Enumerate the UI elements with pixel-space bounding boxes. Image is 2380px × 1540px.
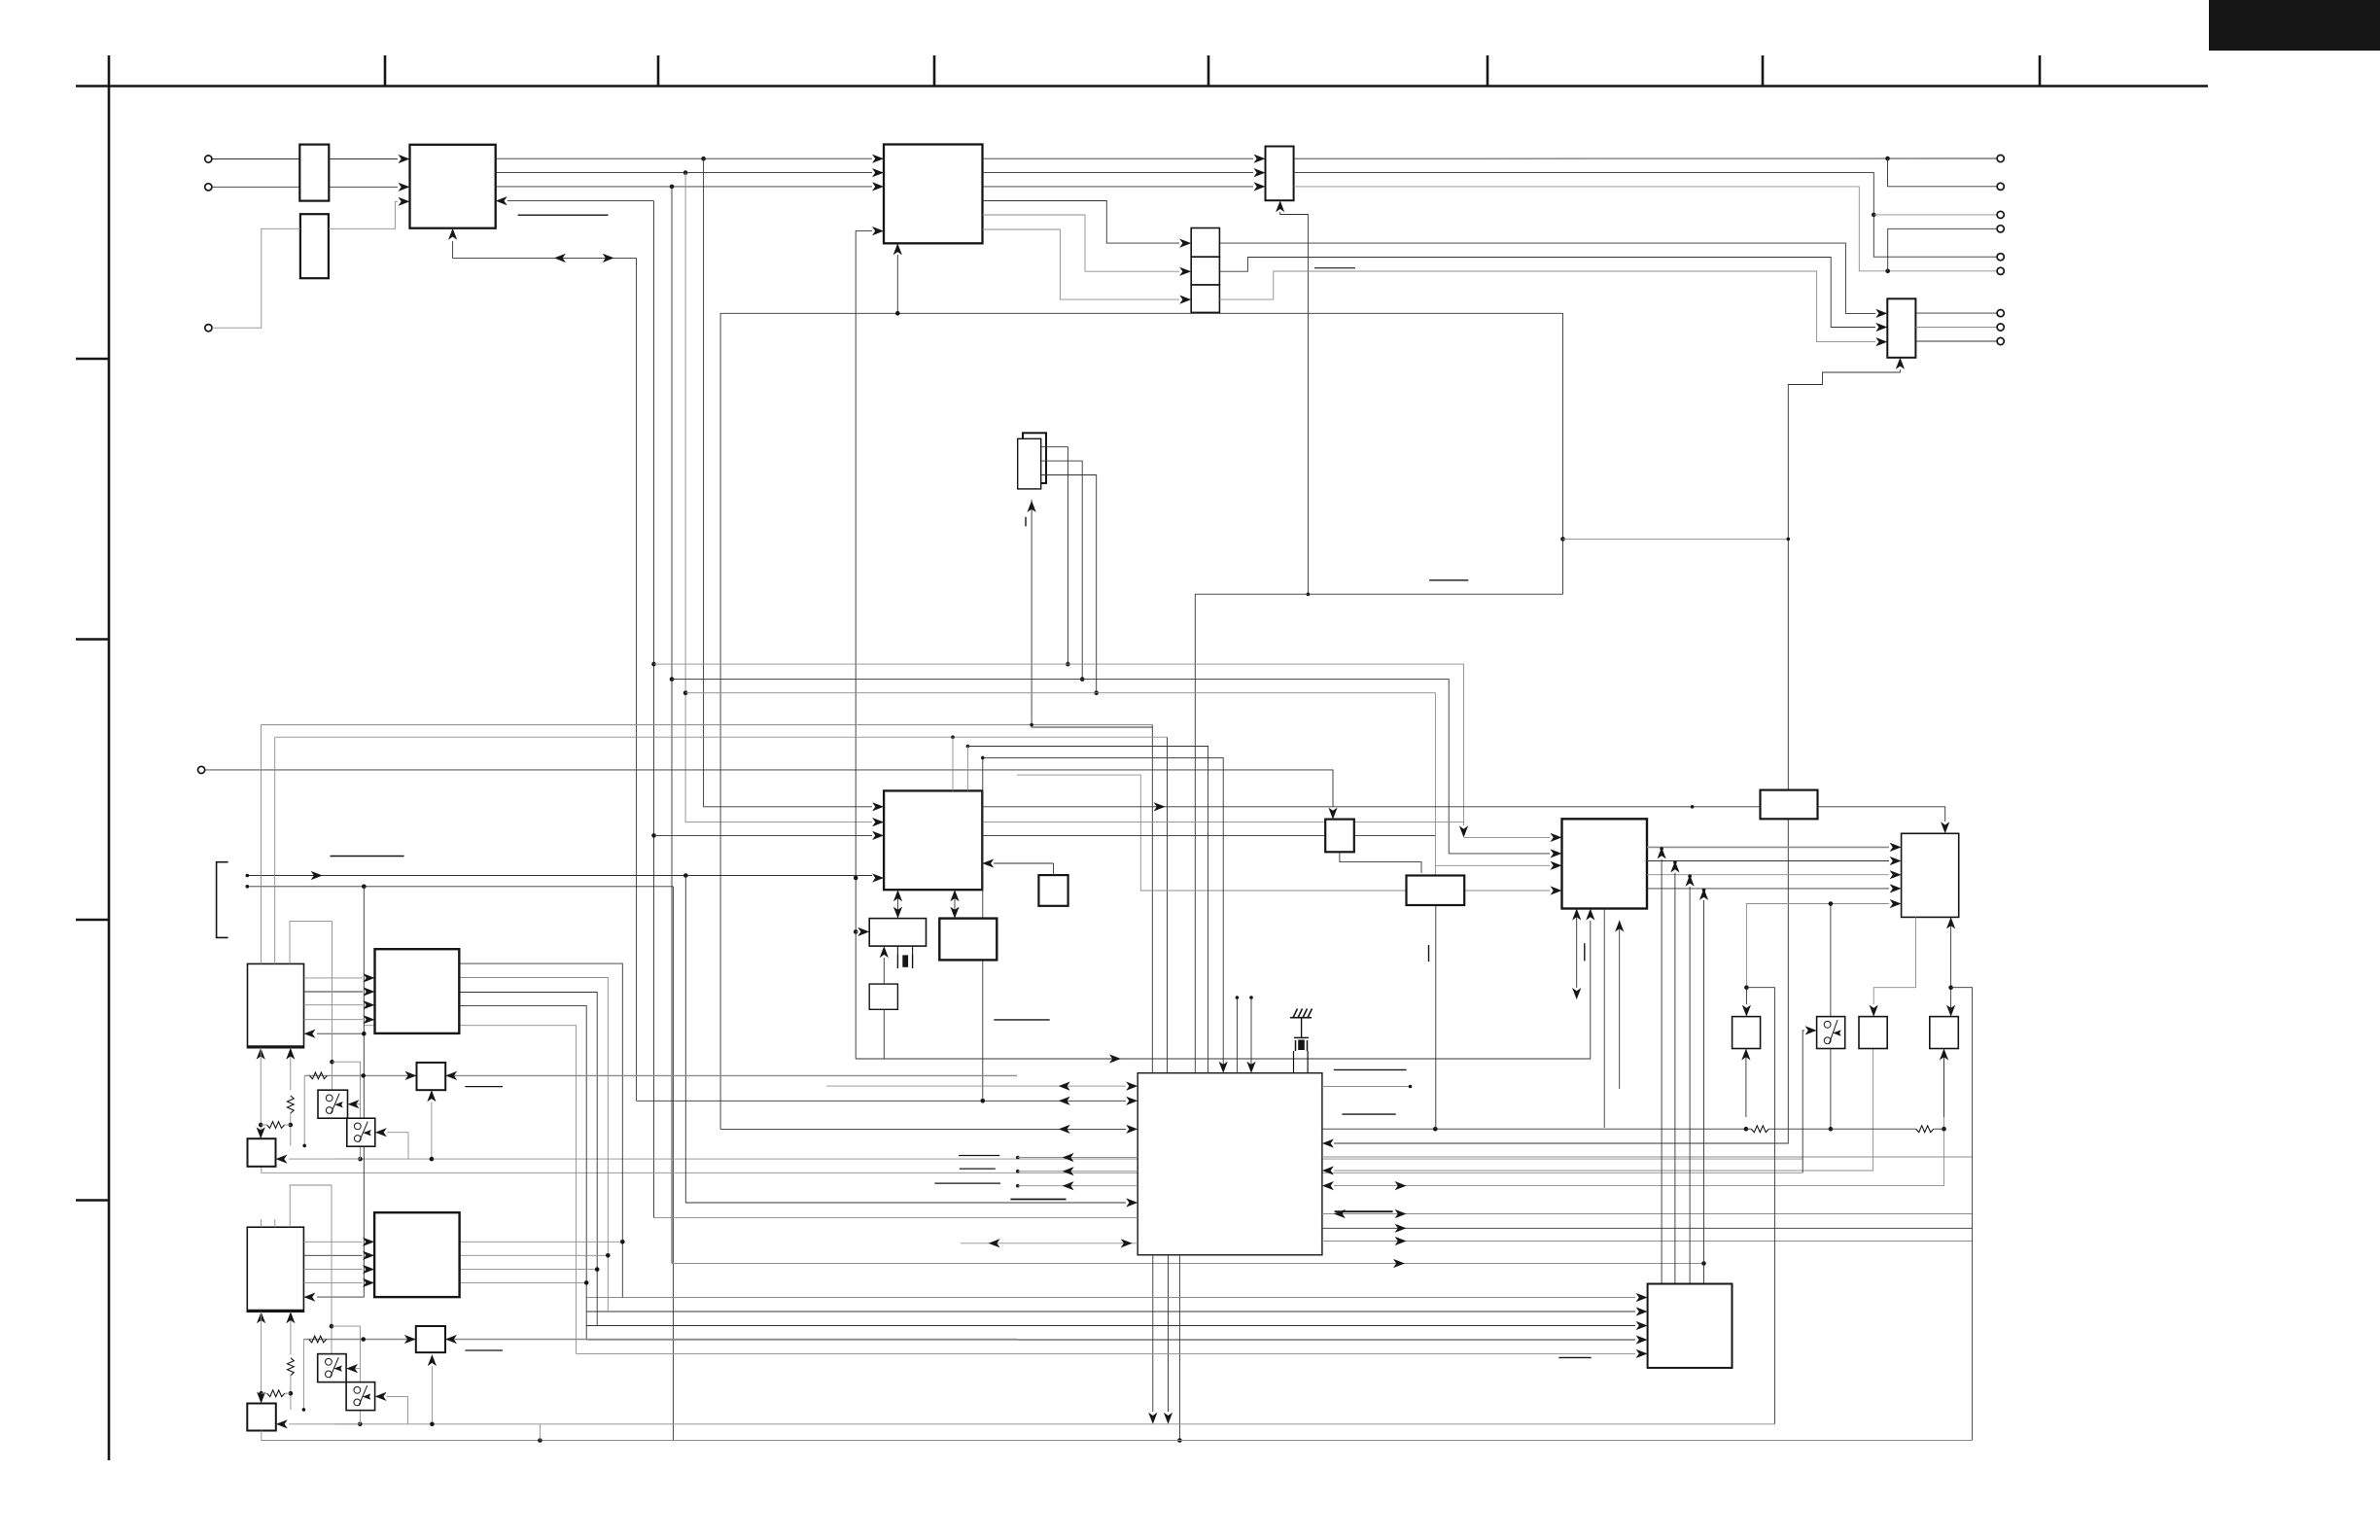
ground symbol <box>1290 1009 1312 1018</box>
MCU U10 <box>1137 1073 1322 1255</box>
mcu right in 1204 <box>1334 1049 1873 1172</box>
wire 1607 corner to v1229 <box>1195 594 1562 1072</box>
bracket <box>217 862 228 938</box>
V bottom <box>1830 1049 1832 1130</box>
E2 bottom verticals <box>261 1323 262 1403</box>
DAC F2 U25 <box>374 1212 460 1297</box>
mid line B to right cluster <box>672 680 1449 854</box>
output terminal c9 <box>1997 337 2004 344</box>
DAC W U19 <box>1648 1284 1732 1368</box>
G1 line <box>304 1074 1017 1076</box>
input terminal J3 <box>205 325 212 332</box>
mcu line 1263 <box>1322 1227 1973 1229</box>
G2 line <box>303 1339 1017 1341</box>
R out to Q top <box>1818 807 1945 822</box>
E2-F2 line1 <box>303 1241 362 1242</box>
junction U4 out2 <box>1080 677 1085 682</box>
sw1b input <box>387 1132 408 1134</box>
W vert 2 <box>1674 873 1676 1284</box>
label underline G2 <box>465 1349 503 1351</box>
junction v374/E1 <box>362 1032 367 1036</box>
line B bracket <box>247 886 673 888</box>
output terminal c3 <box>1997 211 2004 218</box>
resistor R11 <box>1916 1126 1934 1133</box>
bus2 FL3 to corner <box>1294 173 1998 258</box>
V top wire <box>1830 905 1832 1017</box>
label underline n1 <box>959 1155 999 1157</box>
ROM U7 <box>939 919 997 961</box>
ctrl line dot-start 1 <box>1016 1156 1020 1160</box>
pi shape E2 top <box>290 1185 332 1227</box>
G2 right line <box>457 1339 1017 1341</box>
branch to G2 feed <box>332 1326 360 1424</box>
U3 out1 to terminal c7 <box>1915 312 1997 314</box>
U feed net <box>1744 985 1749 990</box>
U4 out3 <box>1041 475 1097 693</box>
P in4 arrow <box>1551 886 1562 894</box>
DSP U5 <box>884 790 982 890</box>
junction DSPtop1/758 <box>951 735 955 739</box>
pin label tick <box>1025 517 1027 527</box>
bidir arrows DSP-RAM <box>897 890 899 918</box>
filter FL4 <box>1191 228 1219 258</box>
output terminal c6 <box>1997 267 2004 274</box>
P bottom pin 3 <box>1619 921 1621 1089</box>
box O U12 <box>1407 876 1465 906</box>
output driver U3 <box>1887 298 1915 358</box>
box O bottom pin <box>1435 904 1437 1129</box>
vertical v692 down <box>672 887 674 1441</box>
output terminal c1 <box>1997 155 2004 161</box>
line J4 to N <box>205 770 1333 807</box>
H2 bottom long wire <box>262 1431 1973 1441</box>
P-Q bus 3 <box>1647 874 1889 876</box>
R input junction <box>1691 805 1695 809</box>
mcu right in 1176 <box>1334 539 1788 1143</box>
E1-F1 line2 <box>304 991 364 993</box>
P bottom pin 2 <box>1603 909 1605 1129</box>
box N U11 <box>1325 820 1354 853</box>
F1 out4 step <box>459 1005 586 1340</box>
tap to terminal c3 <box>1873 214 1997 216</box>
U4 bottom feed <box>1032 500 1152 727</box>
ruler tick marks <box>384 55 387 87</box>
junction U4 out3 <box>1094 690 1099 695</box>
junction U2 bottom tee <box>895 311 900 316</box>
left border tick marks <box>76 358 109 361</box>
tap to terminal c4 <box>1888 228 1997 270</box>
U2 out5 step to FL5 <box>983 215 1180 271</box>
junction on v1607 <box>1560 537 1565 542</box>
H1 feed line right <box>361 1158 1803 1160</box>
mcu line 1277r <box>1322 1241 1973 1242</box>
filter FL3 <box>1266 147 1294 201</box>
output terminal c7 <box>1997 310 2004 317</box>
wire J3 to FL2 <box>212 228 300 328</box>
E2-F2 line3 <box>303 1269 362 1271</box>
input terminal J1 <box>205 156 212 162</box>
line under MCU 1299 <box>672 1263 1704 1265</box>
wire to RAM <box>856 930 857 932</box>
junction 1481 <box>538 1438 542 1443</box>
output terminal c5 <box>1997 254 2004 261</box>
label underline U1 <box>518 214 609 216</box>
wire into U2 in4 <box>856 231 872 1059</box>
G1 right line <box>457 1074 1017 1076</box>
mcu right out 1190 <box>1322 1156 1973 1158</box>
junction g1 vert <box>431 1102 433 1159</box>
T feed <box>1873 917 1915 1004</box>
switch box V SW5 <box>1817 1017 1845 1049</box>
E2-F2 line2 <box>303 1254 362 1256</box>
mcu right line 1117 <box>1322 1086 1411 1088</box>
vertical resistor R1 <box>287 1096 294 1113</box>
return line to MCU pin a <box>1151 725 1153 1073</box>
vertical resistor R4 <box>288 1358 295 1376</box>
resistor net line 1161 <box>1322 1128 1746 1130</box>
filter FL1 <box>299 145 329 201</box>
mcu in line 1236 <box>683 873 688 878</box>
U1 bottom control wire bidirectional <box>453 241 637 258</box>
clock box U8 <box>869 984 897 1009</box>
U4 out2 <box>1041 461 1083 679</box>
resistor line segs <box>1934 1128 1944 1130</box>
mcu line 1248 <box>1322 1213 1973 1215</box>
return line to MCU pin b <box>1167 737 1169 1072</box>
tap to terminal c2 <box>1888 158 1998 187</box>
mcu bidir 1219 <box>1334 1049 1944 1186</box>
page border: left vertical line <box>108 55 111 1460</box>
label underline n2 <box>960 1168 996 1170</box>
junction v691 tap <box>670 677 675 682</box>
mid line A to right cluster <box>654 664 1464 825</box>
junction bus1 tap c2 <box>1885 157 1890 161</box>
F2 out3 join <box>460 1269 598 1271</box>
sw2a feed net <box>331 1185 332 1354</box>
F1 out1 step <box>459 963 622 1297</box>
horizontal 1089 line <box>856 921 1591 1059</box>
junction v1476/1161 <box>1433 1127 1438 1132</box>
label underline under ROM <box>994 1019 1049 1021</box>
box G1 U23 <box>417 1063 446 1090</box>
frame top link <box>1951 988 1973 1441</box>
vertical v723 <box>704 158 872 807</box>
selector IC U1 <box>410 145 496 228</box>
wire FL1 out1 to U1 <box>329 158 398 160</box>
start dot line B <box>246 885 250 889</box>
U8 bottom wire <box>883 1009 885 1059</box>
crystal X1 wires <box>896 946 898 954</box>
v374 continue to E2 <box>317 1033 364 1297</box>
switch SW2a <box>318 1354 346 1382</box>
bus line DATA3 U1 to U2 <box>496 186 872 188</box>
start dot line A <box>246 874 250 878</box>
box H1 U22 <box>248 1138 276 1167</box>
vertical v654 <box>636 258 638 1101</box>
box Q U14 <box>1902 833 1959 917</box>
K top wire to DSP <box>1053 863 1055 875</box>
FL4 out to U3 in1 <box>1219 243 1875 313</box>
label dash on line <box>1010 1199 1066 1201</box>
return line to O and P <box>1017 775 1407 891</box>
vertical v705 <box>685 173 872 822</box>
wire FL2 to U1 in3 <box>329 201 398 228</box>
DAC F1 U21 <box>375 949 460 1033</box>
corner marker black rectangle <box>2209 0 2380 51</box>
bus1 FL3 to terminal <box>1294 157 1998 159</box>
W in lines from left <box>586 1297 1635 1299</box>
U4 out1 <box>1041 447 1068 664</box>
bidir arrows DSP-ROM <box>954 890 956 918</box>
horizontal resistor R2 <box>267 1122 285 1129</box>
junction U4 out1 <box>1066 662 1070 667</box>
corner v312 down <box>302 1340 304 1410</box>
U3 out3 to terminal c9 <box>1915 340 1997 342</box>
bus3 FL3 to corner <box>1294 187 1998 271</box>
P bottom pin 1 <box>1576 909 1578 989</box>
junction sw1b feed <box>358 1157 363 1162</box>
junction bus2/v705 <box>683 170 688 175</box>
E2-F2 line4 <box>303 1281 362 1283</box>
ctrl line dot-start 2 <box>1016 1170 1020 1173</box>
ctrl line to MCU top 1258 <box>981 756 985 760</box>
sw1a feed net <box>332 921 333 1090</box>
junction v1839/554 <box>1787 538 1791 542</box>
FL3 bottom feed <box>1280 212 1309 594</box>
W vert 1 <box>1661 859 1662 1284</box>
FL5 out step up <box>1219 258 1875 328</box>
bidir bus line 3 <box>720 1128 1126 1130</box>
junction U4feed/745 <box>1030 723 1033 727</box>
ctrl line to MCU top 1242 <box>966 745 970 749</box>
label underline FL4 <box>1314 267 1355 269</box>
horizontal resistor R5 <box>267 1390 285 1397</box>
E1 top pins up <box>261 725 262 964</box>
output terminal c4 <box>1997 226 2004 232</box>
box K U9 <box>1038 875 1067 906</box>
P-Q bus 4 <box>1647 888 1889 890</box>
fifth line step <box>364 1026 576 1354</box>
box U U16 <box>1732 1017 1761 1049</box>
E1-F1 line1 <box>304 977 364 979</box>
box G2 U27 <box>416 1326 445 1352</box>
F1 out3 step <box>459 993 597 1326</box>
resistor R6 on G2 line <box>309 1336 327 1343</box>
vertical v672 <box>653 201 655 1218</box>
sw2b input <box>387 1395 408 1397</box>
vertical v691 <box>671 187 673 1264</box>
pin label tick 3 <box>1428 945 1430 962</box>
bidir bus line 1 <box>826 1085 1126 1087</box>
U2 bottom wire right branch <box>897 313 1562 594</box>
box H2 U26 <box>247 1404 275 1431</box>
box T U17 <box>1859 1017 1887 1049</box>
junction c3 tap <box>1872 213 1876 218</box>
P in2 <box>1449 853 1550 855</box>
junction sw2a <box>330 1324 334 1329</box>
P in3 <box>1435 864 1550 866</box>
U3 out2 to terminal c8 <box>1915 327 1997 329</box>
filter FL6 <box>1191 285 1219 312</box>
P-Q bus 1 <box>1647 846 1889 848</box>
F1 out2 step <box>459 978 608 1312</box>
box R U15 <box>1761 790 1818 820</box>
vertical v1010 down <box>982 757 984 1101</box>
junction sw1a <box>330 1060 334 1065</box>
bus1 U2 to FL3 <box>983 157 1254 159</box>
W vert 3 <box>1689 887 1691 1284</box>
S bottom <box>1943 1049 1945 1118</box>
U2 bottom pin wire <box>720 255 897 1129</box>
into E1 right <box>317 887 364 1033</box>
box S U18 <box>1930 1017 1959 1049</box>
switch SW2b <box>346 1382 375 1411</box>
H1 right input <box>289 1158 361 1160</box>
connector plug symbol <box>1294 1037 1309 1051</box>
E1-F1 line3 <box>304 1004 364 1006</box>
codec E1 U20 <box>248 963 304 1047</box>
resistor R3 on G1 line <box>309 1072 327 1079</box>
wire into U1 right edge <box>507 200 654 202</box>
U3 bottom feed <box>1788 369 1900 539</box>
mcu in line 1277 <box>961 1242 1137 1244</box>
label dash on 1248 <box>1335 1210 1393 1212</box>
P-Q bus 2 <box>1647 860 1889 862</box>
wire J1 to filter FL1 <box>212 158 299 160</box>
resistor R10 <box>1751 1126 1768 1133</box>
label underline W <box>1558 1356 1591 1358</box>
junction v705 tap <box>683 690 688 695</box>
filter FL2 <box>300 214 329 278</box>
RAM U6 <box>869 919 926 947</box>
H1 bottom wire <box>262 1167 1802 1173</box>
V input arrow <box>1802 1031 1804 1172</box>
junction G1line <box>361 1073 366 1078</box>
corner v313 down <box>303 1075 305 1145</box>
ctrl line dot-start 3 <box>1016 1184 1020 1188</box>
page border: top ruler line <box>76 85 2208 87</box>
wire FL1 out2 to U1 <box>329 186 398 188</box>
switch SW1a <box>318 1090 348 1118</box>
DSP inputs <box>872 802 884 811</box>
H2 right input line 1466 <box>289 1423 1774 1425</box>
label dash r1 <box>1334 1068 1407 1070</box>
pi shape E1 top <box>290 921 332 963</box>
switch SW1b <box>347 1118 375 1146</box>
U2 out4 step to FL4 <box>983 201 1180 244</box>
F2 out1 join <box>460 1241 623 1242</box>
stacked IC pair U4 front <box>1018 438 1041 489</box>
F2 out2 join <box>460 1254 609 1256</box>
ground stem <box>1301 1018 1303 1038</box>
W vert 4 <box>1703 900 1705 1284</box>
codec E2 U24 <box>247 1227 303 1312</box>
junction v880/lineA <box>854 876 858 881</box>
mid line C to right cluster <box>685 693 1435 877</box>
P in1 arrow <box>1464 836 1551 838</box>
bus3 U2 to FL3 <box>983 186 1254 188</box>
output terminal c2 <box>1997 183 2004 190</box>
crystal X1 <box>896 955 898 969</box>
wire v1607 tap right <box>1563 538 1789 540</box>
mcu in line 1250 <box>654 1217 1138 1219</box>
DIR receiver U2 <box>884 145 983 244</box>
U2 out6 step to FL6 <box>983 229 1180 299</box>
output terminal c8 <box>1997 324 2004 331</box>
label underline n3 <box>934 1182 1000 1184</box>
line A into DSP <box>247 875 872 877</box>
bidir bus line 2 <box>637 1100 1126 1102</box>
input terminal J2 <box>205 184 212 191</box>
junction sw2b feed <box>358 1422 363 1427</box>
Q in5 line <box>1746 904 1889 988</box>
bus line DATA2 U1 to U2 <box>496 172 872 174</box>
junction c4 tap <box>1885 269 1890 274</box>
junction v672 tap <box>651 662 656 667</box>
DSP right outputs <box>982 806 1760 808</box>
junction v1010/line2 <box>981 1099 986 1103</box>
junction QS/frame <box>1948 985 1953 990</box>
MCU bottom pins <box>1152 1255 1154 1412</box>
bus2 U2 to FL3 <box>983 172 1254 174</box>
wire into DSP right edge <box>994 862 1054 864</box>
E2 top pins up <box>261 1219 262 1227</box>
filter FL5 <box>1191 257 1219 285</box>
label underline mid <box>1429 579 1468 581</box>
U8 to RAM arrow <box>883 958 885 984</box>
bus line DATA1 U1 to U2 <box>496 157 872 159</box>
branch to G feed <box>332 1062 361 1159</box>
N bottom wire to O <box>1340 852 1421 873</box>
Q-S bidir <box>1950 917 1952 1016</box>
label underline bracket <box>331 856 404 857</box>
pin label tick 2 <box>1584 943 1586 961</box>
MCU top dead-end wires <box>1236 997 1238 1073</box>
label underline G1 <box>465 1086 503 1088</box>
junction g2 vert <box>431 1366 433 1424</box>
junction G2line <box>361 1337 366 1342</box>
junction v880 RAM feed <box>854 929 858 934</box>
terminal J4 <box>198 766 205 773</box>
junction lineB/v374 <box>362 885 367 890</box>
junction bus3/v691 <box>670 185 675 190</box>
E1-F1 line4 <box>304 1019 364 1021</box>
label dash r2 <box>1342 1113 1395 1115</box>
junction bus1/v723 <box>701 157 706 161</box>
U bottom <box>1745 1049 1747 1118</box>
FL6 out step up <box>1219 271 1875 342</box>
box P U13 <box>1562 819 1648 908</box>
junction v1345/611 <box>1307 592 1311 596</box>
wire J2 to filter FL1 <box>212 186 299 188</box>
F2 out4 join <box>460 1281 587 1283</box>
stacked IC pair U4 back <box>1023 433 1046 483</box>
junction lineB2 <box>982 822 1463 823</box>
wire O to P in4 <box>1464 890 1550 892</box>
E1 bottom verticals <box>260 1060 262 1139</box>
connector legs to MCU <box>1293 1051 1295 1073</box>
